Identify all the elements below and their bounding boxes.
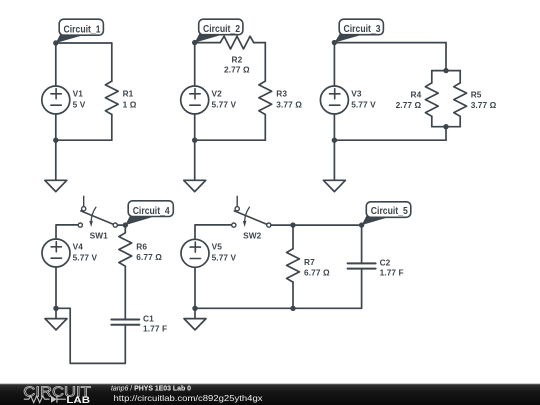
footer CircuitLab logo xyxy=(23,384,91,405)
svg-text:1.77 F: 1.77 F xyxy=(143,324,167,334)
label R6 value xyxy=(136,242,162,262)
wire V5 top lead xyxy=(195,225,232,239)
svg-text:http://circuitlab.com/c892g25y: http://circuitlab.com/c892g25yth4gx xyxy=(114,393,264,403)
wire V1 top lead xyxy=(55,43,57,86)
junction dot circuit4 bottom xyxy=(53,306,58,311)
label V4 value xyxy=(73,241,98,262)
wire V4 bottom lead xyxy=(55,267,57,308)
svg-text:R4: R4 xyxy=(410,90,421,100)
node Circuit_4 dot xyxy=(123,222,128,227)
footer bar xyxy=(0,384,540,405)
svg-text:2.77 Ω: 2.77 Ω xyxy=(224,64,250,74)
wire top (Circuit_1 net) xyxy=(56,42,112,44)
voltage source V3 xyxy=(320,86,348,114)
ground (circuit 2) xyxy=(184,180,206,191)
wire right vertical to R3 xyxy=(264,43,266,82)
label V3 value xyxy=(351,88,376,109)
label R5 value xyxy=(471,90,497,110)
svg-text:R2: R2 xyxy=(231,55,242,65)
resistor R5 xyxy=(454,83,467,116)
svg-text:Circuit_5: Circuit_5 xyxy=(371,206,408,217)
wire top right xyxy=(254,42,266,44)
node Circuit_5 dot xyxy=(359,222,364,227)
resistor R7 xyxy=(287,225,300,282)
wire top left (Circuit_2 net) xyxy=(195,42,221,44)
voltage source V5 xyxy=(181,239,209,267)
wire R1 bottom lead xyxy=(111,115,113,141)
switch SW2 xyxy=(232,196,271,227)
svg-text:R7: R7 xyxy=(304,257,315,267)
node Circuit_1 dot xyxy=(53,40,58,45)
footer url text xyxy=(114,393,264,403)
label V2 value xyxy=(212,88,237,109)
wire R4 top stub xyxy=(431,71,433,83)
wire R5 top stub xyxy=(459,71,461,83)
wire top (Circuit_3 net) xyxy=(334,42,446,44)
wire V5 bottom lead xyxy=(194,267,196,308)
ground (circuit 1) xyxy=(45,180,67,191)
resistor R6 xyxy=(119,225,132,266)
wire V1 bottom lead xyxy=(55,114,57,140)
wire down to parallel pair xyxy=(445,43,447,71)
label R1 value xyxy=(123,88,137,109)
junction dot parallel bottom xyxy=(443,124,448,129)
svg-text:V1: V1 xyxy=(73,88,84,98)
wire ground stub circuit4 xyxy=(55,308,57,318)
svg-text:R1: R1 xyxy=(123,88,134,98)
svg-text:Circuit_3: Circuit_3 xyxy=(344,24,381,35)
footer title text xyxy=(111,384,191,393)
svg-text:Circuit_2: Circuit_2 xyxy=(203,24,240,35)
wire ground stub circuit5 xyxy=(194,308,196,318)
voltage source V1 xyxy=(42,86,70,114)
svg-text:Circuit_4: Circuit_4 xyxy=(133,206,170,217)
junction dot circuit3 bottom xyxy=(332,138,337,143)
svg-text:3.77 Ω: 3.77 Ω xyxy=(276,99,302,109)
voltage source V2 xyxy=(181,86,209,114)
resistor R3 xyxy=(259,81,272,114)
label C2 value xyxy=(380,257,404,277)
voltage source V4 xyxy=(42,239,70,267)
capacitor C1 xyxy=(111,320,139,325)
ground (circuit 4) xyxy=(45,319,67,330)
svg-text:SW1: SW1 xyxy=(90,230,109,240)
junction dot V5 bottom xyxy=(192,306,197,311)
svg-text:V5: V5 xyxy=(212,242,223,252)
wire bottom circuit5 xyxy=(195,307,362,309)
svg-text:5.77 V: 5.77 V xyxy=(351,99,376,109)
wire V4 top lead xyxy=(56,225,78,239)
wire C1 bottom loop xyxy=(56,308,125,363)
wire switch to node xyxy=(117,224,125,226)
wire V2 top lead xyxy=(194,43,196,86)
svg-text:V4: V4 xyxy=(73,241,84,251)
svg-text:5.77 V: 5.77 V xyxy=(73,252,98,262)
svg-text:V3: V3 xyxy=(351,88,362,98)
svg-text:SW2: SW2 xyxy=(243,230,262,240)
capacitor C2 xyxy=(348,225,376,308)
wire right vertical to R1 xyxy=(111,43,113,81)
wire V2 bottom lead xyxy=(194,114,196,140)
node Circuit_2 dot xyxy=(192,40,197,45)
wire R5 bottom stub xyxy=(459,116,461,126)
junction dot parallel top xyxy=(443,68,448,73)
label SW2 xyxy=(243,230,262,240)
svg-text:C1: C1 xyxy=(143,313,154,323)
label V5 value xyxy=(212,242,237,263)
node Circuit_5 callout label xyxy=(362,202,411,225)
wire parallel top bar xyxy=(432,70,460,72)
junction dot circuit1 bottom xyxy=(53,138,58,143)
wire bottom circuit2 xyxy=(195,139,266,141)
svg-text:5.77 V: 5.77 V xyxy=(212,253,237,263)
label R2 value xyxy=(224,55,250,75)
wire R7 bottom lead xyxy=(292,282,294,308)
wire V3 top lead xyxy=(333,43,335,86)
svg-text:tanp6 / PHYS 1E03 Lab 0: tanp6 / PHYS 1E03 Lab 0 xyxy=(111,384,191,393)
junction dot R7 bottom xyxy=(290,306,295,311)
svg-text:2.77 Ω: 2.77 Ω xyxy=(396,100,422,110)
svg-text:6.77 Ω: 6.77 Ω xyxy=(136,252,162,262)
junction dot R7 top xyxy=(290,222,295,227)
svg-text:Circuit_1: Circuit_1 xyxy=(64,24,101,35)
label C1 value xyxy=(143,313,167,333)
node Circuit_3 dot xyxy=(332,40,337,45)
svg-text:6.77 Ω: 6.77 Ω xyxy=(304,268,330,278)
wire R3 bottom lead xyxy=(264,115,266,141)
wire ground stub circuit3 xyxy=(333,140,335,180)
node Circuit_1 callout label xyxy=(56,19,104,43)
label V1 value xyxy=(73,88,86,109)
wire down from parallel pair xyxy=(445,127,447,141)
label R3 value xyxy=(276,88,302,109)
svg-text:R3: R3 xyxy=(276,88,287,98)
wire ground stub circuit2 xyxy=(194,140,196,180)
svg-text:R5: R5 xyxy=(471,90,482,100)
svg-text:C2: C2 xyxy=(380,257,391,267)
svg-text:3.77 Ω: 3.77 Ω xyxy=(471,100,497,110)
svg-text:1 Ω: 1 Ω xyxy=(123,99,137,109)
label R7 value xyxy=(304,257,330,278)
wire bottom circuit3 xyxy=(334,139,446,141)
wire R6 to C1 xyxy=(124,266,126,318)
resistor R1 xyxy=(105,81,118,114)
wire R4 bottom stub xyxy=(431,116,433,126)
resistor R2 (horizontal) xyxy=(220,36,253,49)
svg-text:V2: V2 xyxy=(212,88,223,98)
svg-text:5 V: 5 V xyxy=(73,99,86,109)
svg-text:1.77 F: 1.77 F xyxy=(380,268,404,278)
wire switch to C2 node xyxy=(271,224,362,226)
ground (circuit 5) xyxy=(184,319,206,330)
wire bottom xyxy=(56,139,112,141)
svg-text:R6: R6 xyxy=(136,242,147,252)
wire parallel bottom bar xyxy=(432,126,460,128)
node Circuit_4 callout label xyxy=(125,201,173,225)
switch SW1 xyxy=(78,196,117,227)
svg-text:LAB: LAB xyxy=(66,395,90,405)
label SW1 xyxy=(90,230,109,240)
junction dot circuit2 bottom xyxy=(192,138,197,143)
ground (circuit 3) xyxy=(323,180,345,191)
resistor R4 xyxy=(425,83,438,116)
node Circuit_2 callout label xyxy=(195,19,243,42)
wire V3 bottom lead xyxy=(333,114,335,140)
node Circuit_3 callout label xyxy=(334,19,383,42)
label R4 value xyxy=(396,90,422,110)
wire ground stub circuit1 xyxy=(55,140,57,180)
svg-text:5.77 V: 5.77 V xyxy=(212,99,237,109)
